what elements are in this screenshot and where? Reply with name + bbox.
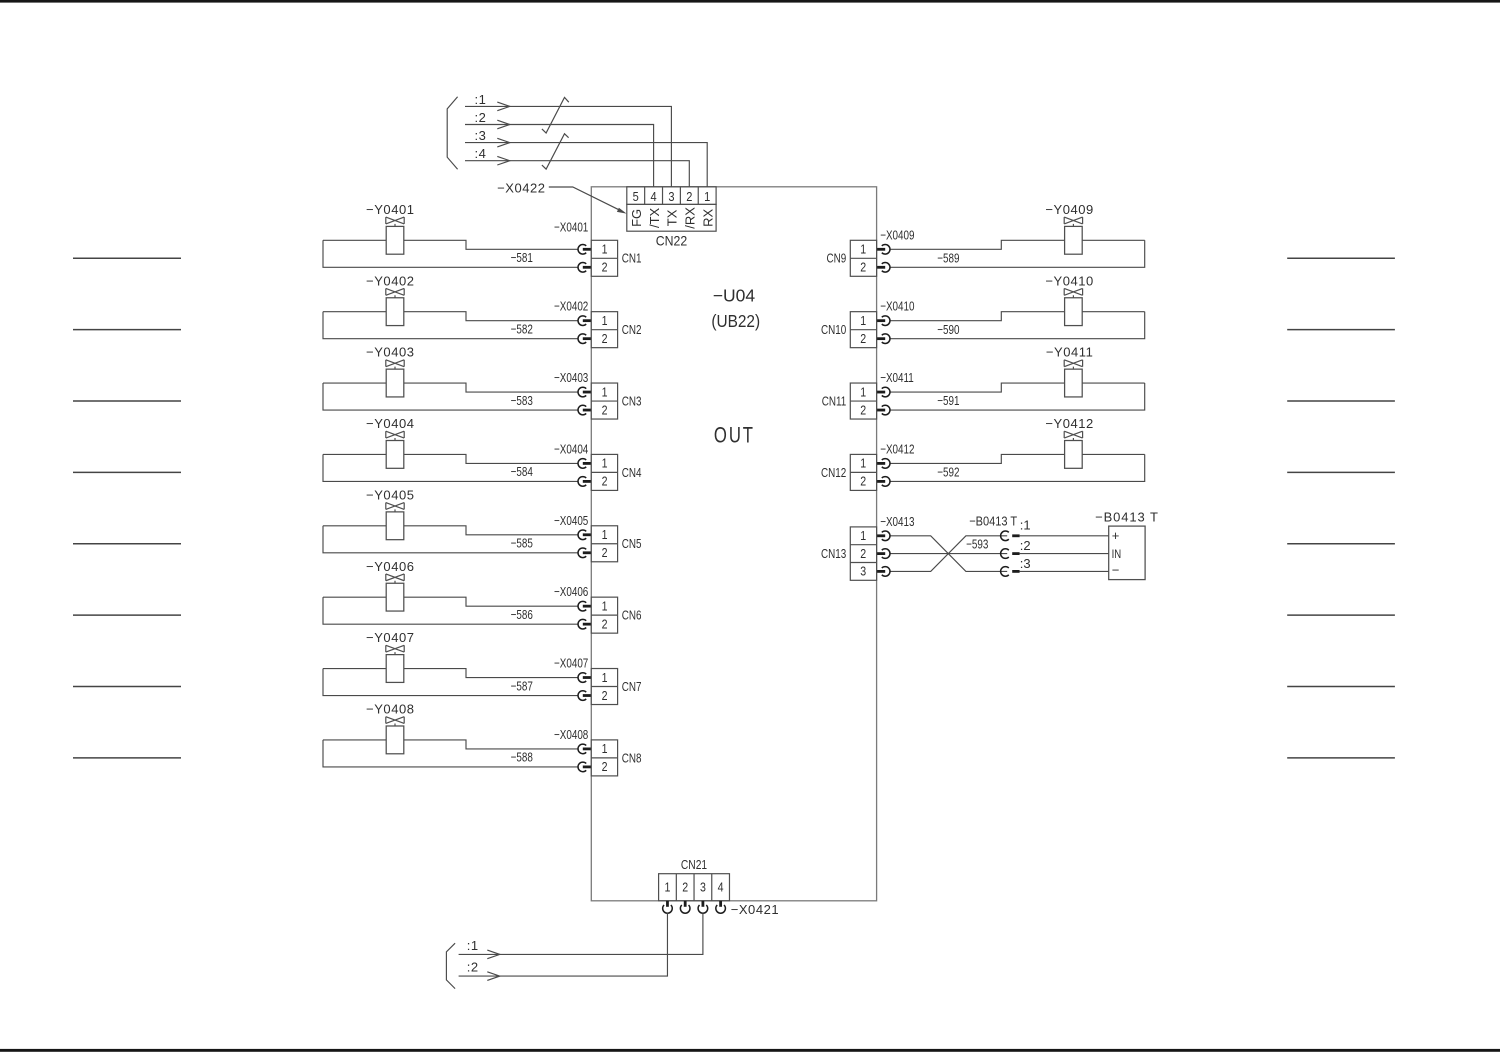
svg-text:1: 1 [704, 189, 710, 204]
svg-text:1: 1 [602, 671, 608, 685]
svg-text:−B0413 T: −B0413 T [1095, 510, 1159, 525]
wire -583 bottom segment (CN3 pin 2 return) [323, 383, 578, 410]
svg-text:−Y0407: −Y0407 [366, 630, 414, 645]
valve Y0409 [1064, 217, 1082, 254]
svg-text:−587: −587 [511, 680, 533, 694]
svg-text:CN5: CN5 [622, 538, 642, 552]
connector CN12 pin box [850, 454, 876, 490]
sensor B0413 box [1109, 526, 1145, 580]
wire CN21 pin 3 to :1 [459, 913, 703, 954]
svg-text:(UB22): (UB22) [711, 312, 760, 331]
svg-text:OUT: OUT [714, 423, 755, 448]
svg-text:CN9: CN9 [826, 253, 846, 267]
connector X0413 (socket halves) [876, 531, 890, 576]
svg-text::2: :2 [1020, 538, 1031, 553]
wire -584 bottom segment (CN4 pin 2 return) [323, 454, 578, 481]
svg-text:−X0410: −X0410 [880, 301, 914, 315]
svg-text:3: 3 [860, 565, 866, 579]
svg-text:−583: −583 [511, 395, 533, 409]
valve Y0407 [386, 645, 404, 682]
svg-text:−Y0409: −Y0409 [1045, 202, 1093, 217]
svg-text:1: 1 [860, 386, 866, 400]
leader line X0422 [549, 187, 620, 210]
svg-text:−584: −584 [511, 466, 534, 480]
svg-text:2: 2 [860, 261, 866, 275]
connector X0404 (socket halves) [578, 459, 592, 487]
svg-text:CN7: CN7 [622, 681, 642, 695]
svg-text:−Y0405: −Y0405 [366, 487, 414, 502]
svg-text:−582: −582 [511, 323, 533, 337]
svg-text:+: + [1112, 528, 1120, 543]
connector CN5 pin box [591, 526, 617, 562]
connector CN22 pin number row (5 4 3 2 1) [627, 187, 716, 205]
svg-text:−X0412: −X0412 [880, 443, 914, 457]
valve Y0412 [1064, 431, 1082, 468]
svg-text:−X0403: −X0403 [554, 372, 588, 386]
svg-text:−U04: −U04 [713, 286, 756, 306]
svg-text:−X0407: −X0407 [554, 657, 588, 671]
valve Y0401 [386, 217, 404, 254]
svg-text:FG: FG [629, 209, 644, 227]
svg-text:3: 3 [668, 189, 674, 204]
right margin line row 6 [1287, 614, 1395, 616]
connector X0408 (socket halves) [578, 744, 592, 772]
svg-text:2: 2 [860, 547, 866, 561]
svg-text:CN8: CN8 [622, 752, 642, 766]
leader arrowhead X0422 [617, 208, 627, 214]
svg-text:/TX: /TX [647, 207, 662, 228]
connector X0402 (socket halves) [578, 316, 592, 344]
wire -586 bottom segment (CN6 pin 2 return) [323, 597, 578, 624]
wire :3 from top-left [465, 143, 707, 187]
left margin line row 4 [73, 471, 181, 473]
svg-text:−585: −585 [511, 537, 533, 551]
svg-text:−591: −591 [937, 395, 959, 409]
svg-text:4: 4 [651, 189, 657, 204]
svg-text:−X0422: −X0422 [497, 180, 545, 195]
svg-text:−Y0406: −Y0406 [366, 559, 414, 574]
connector CN7 pin box [591, 669, 617, 705]
svg-text:2: 2 [860, 332, 866, 346]
connector X0411 (socket halves) [876, 387, 890, 415]
connector CN10 pin box [850, 312, 876, 348]
svg-text:1: 1 [860, 314, 866, 328]
svg-text:2: 2 [602, 618, 608, 632]
svg-text:1: 1 [602, 528, 608, 542]
left margin line row 8 [73, 757, 181, 759]
connector CN4 pin box [591, 454, 617, 490]
left margin line row 1 [73, 257, 181, 259]
wire -587 top segment (valve Y0407 to CN7 pin 1) [323, 669, 578, 678]
svg-text:2: 2 [602, 332, 608, 346]
svg-text:−581: −581 [511, 252, 533, 266]
valve Y0402 [386, 288, 404, 325]
twisted pair mark (wires :1 :2) [542, 97, 569, 133]
svg-text:−Y0410: −Y0410 [1045, 273, 1093, 288]
svg-text:−X0421: −X0421 [731, 902, 779, 917]
connector X0405 (socket halves) [578, 530, 592, 558]
svg-text:−X0411: −X0411 [880, 372, 914, 386]
connector X0406 (socket halves) [578, 601, 592, 629]
valve Y0403 [386, 360, 404, 397]
connector X0410 (socket halves) [876, 316, 890, 344]
connector X0403 (socket halves) [578, 387, 592, 415]
connector CN21 pin row (1 2 3 4) [659, 874, 730, 901]
connector B0413 plug (socket halves :1 :2 :3) [1001, 531, 1020, 576]
wire -590 bottom segment (return to CN10 pin 2) [890, 312, 1145, 339]
right margin line row 2 [1287, 329, 1395, 331]
svg-text:TX: TX [665, 209, 680, 226]
wire -585 bottom segment (CN5 pin 2 return) [323, 526, 578, 553]
svg-text:−X0409: −X0409 [880, 229, 914, 243]
wire -586 top segment (valve Y0406 to CN6 pin 1) [323, 597, 578, 606]
svg-text::1: :1 [1020, 518, 1031, 533]
wire -592 top segment (CN12 pin 1 to valve Y0412) [890, 454, 1145, 463]
right margin line row 7 [1287, 686, 1395, 688]
svg-text:2: 2 [602, 689, 608, 703]
twisted pair mark (wires :3 :4) [542, 134, 569, 169]
connector CN3 pin box [591, 383, 617, 419]
right margin line row 5 [1287, 543, 1395, 545]
svg-text:1: 1 [860, 529, 866, 543]
svg-text::1: :1 [475, 92, 487, 107]
valve Y0406 [386, 574, 404, 611]
svg-text:−Y0402: −Y0402 [366, 273, 414, 288]
wire -587 bottom segment (CN7 pin 2 return) [323, 669, 578, 696]
wire plug to sensor - [1020, 570, 1109, 572]
svg-text:CN12: CN12 [821, 467, 846, 481]
arrow on bottom wire :1 [487, 950, 500, 959]
svg-text:−586: −586 [511, 609, 533, 623]
connector CN6 pin box [591, 597, 617, 633]
wire CN21 pin 1 to :2 [459, 913, 668, 976]
svg-text:−593: −593 [966, 538, 988, 552]
valve Y0408 [386, 717, 404, 754]
svg-text::4: :4 [475, 146, 487, 161]
svg-text:2: 2 [860, 404, 866, 418]
svg-text:−589: −589 [937, 252, 959, 266]
wire -591 bottom segment (return to CN11 pin 2) [890, 383, 1145, 410]
connector X0412 (socket halves) [876, 459, 890, 487]
valve Y0405 [386, 503, 404, 540]
connector X0421 (socket halves) [663, 901, 726, 913]
left margin line row 5 [73, 543, 181, 545]
svg-text:−X0408: −X0408 [554, 729, 588, 743]
wire -584 top segment (valve Y0404 to CN4 pin 1) [323, 454, 578, 463]
wire -589 bottom segment (return to CN9 pin 2) [890, 240, 1145, 267]
svg-text:−B0413 T: −B0413 T [969, 514, 1018, 529]
svg-text:1: 1 [602, 600, 608, 614]
svg-text:−: − [1112, 563, 1120, 578]
svg-text:CN2: CN2 [622, 324, 642, 338]
svg-text:2: 2 [602, 760, 608, 774]
svg-text:−X0402: −X0402 [554, 301, 588, 315]
connector CN1 pin box [591, 240, 617, 276]
connector CN9 pin box [850, 240, 876, 276]
svg-text:CN6: CN6 [622, 609, 642, 623]
svg-text:−X0405: −X0405 [554, 515, 588, 529]
svg-text:−592: −592 [937, 466, 959, 480]
svg-text:−X0401: −X0401 [554, 221, 588, 235]
svg-text:−X0406: −X0406 [554, 586, 588, 600]
cable bracket bottom left [446, 943, 455, 988]
svg-text:CN21: CN21 [681, 859, 707, 872]
wire -593 conductor 3 (CN13 pin 3, crossing up) [890, 536, 1007, 572]
wire -581 top segment (valve Y0401 to CN1 pin 1) [323, 240, 578, 249]
arrow on wire :2 [497, 120, 510, 129]
wire -588 bottom segment (CN8 pin 2 return) [323, 740, 578, 767]
svg-text:1: 1 [860, 243, 866, 257]
svg-text::3: :3 [475, 128, 487, 143]
svg-text:1: 1 [602, 314, 608, 328]
left margin line row 2 [73, 329, 181, 331]
svg-text:−Y0403: −Y0403 [366, 345, 414, 360]
module U04 (UB22) outline [591, 187, 876, 901]
valve Y0411 [1064, 360, 1082, 397]
arrow on wire :3 [497, 138, 510, 147]
svg-text:CN13: CN13 [821, 548, 846, 562]
svg-text:2: 2 [682, 881, 688, 895]
svg-text:1: 1 [602, 457, 608, 471]
connector CN8 pin box [591, 740, 617, 776]
connector CN22 signal name row [627, 204, 716, 231]
right margin line row 8 [1287, 757, 1395, 759]
arrow on wire :1 [497, 102, 510, 111]
connector X0401 (socket halves) [578, 245, 592, 273]
arrow on bottom wire :2 [487, 972, 500, 981]
right margin line row 1 [1287, 257, 1395, 259]
svg-text:IN: IN [1112, 548, 1122, 561]
svg-text:RX: RX [700, 209, 715, 227]
wire -581 bottom segment (CN1 pin 2 return) [323, 240, 578, 267]
right margin line row 4 [1287, 471, 1395, 473]
wire -585 top segment (valve Y0405 to CN5 pin 1) [323, 526, 578, 535]
left margin line row 3 [73, 400, 181, 402]
svg-text:CN4: CN4 [622, 467, 642, 481]
arrow on wire :4 [497, 156, 510, 165]
svg-text:CN3: CN3 [622, 395, 642, 409]
svg-text:1: 1 [665, 881, 671, 895]
wire -583 top segment (valve Y0403 to CN3 pin 1) [323, 383, 578, 392]
svg-text:4: 4 [718, 881, 724, 895]
svg-text:−X0404: −X0404 [554, 443, 589, 457]
valve Y0404 [386, 431, 404, 468]
svg-text:2: 2 [686, 189, 692, 204]
right margin line row 3 [1287, 400, 1395, 402]
svg-text:2: 2 [602, 261, 608, 275]
wire -593 conductor 2 (CN13 pin 2 straight) [890, 553, 1007, 555]
svg-text:−Y0412: −Y0412 [1045, 416, 1093, 431]
wire :2 from top-left [465, 125, 654, 187]
wire -591 top segment (CN11 pin 1 to valve Y0411) [890, 383, 1145, 392]
svg-text:3: 3 [700, 881, 706, 895]
wire -590 top segment (CN10 pin 1 to valve Y0410) [890, 312, 1145, 321]
svg-text:2: 2 [602, 546, 608, 560]
wire :1 from top-left [465, 106, 671, 186]
wire plug to sensor IN [1020, 553, 1109, 555]
svg-text:5: 5 [633, 189, 639, 204]
svg-text:1: 1 [602, 742, 608, 756]
svg-text:1: 1 [602, 386, 608, 400]
connector X0407 (socket halves) [578, 673, 592, 701]
wire plug to sensor + [1020, 535, 1109, 537]
svg-text::2: :2 [467, 959, 479, 974]
svg-text:−Y0401: −Y0401 [366, 202, 414, 217]
svg-text:/RX: /RX [683, 207, 698, 229]
connector CN11 pin box [850, 383, 876, 419]
svg-text::2: :2 [475, 110, 487, 125]
cable bracket top left [447, 97, 457, 170]
svg-text:−Y0404: −Y0404 [366, 416, 414, 431]
connector CN13 pin box [850, 527, 876, 580]
svg-text::3: :3 [1020, 556, 1031, 571]
svg-text:−588: −588 [511, 752, 533, 766]
svg-text:1: 1 [602, 243, 608, 257]
valve Y0410 [1064, 288, 1082, 325]
svg-text:2: 2 [602, 404, 608, 418]
wire -592 bottom segment (return to CN12 pin 2) [890, 454, 1145, 481]
svg-text:CN22: CN22 [656, 233, 687, 249]
svg-text::1: :1 [467, 938, 479, 953]
svg-text:−590: −590 [937, 324, 959, 338]
connector X0409 (socket halves) [876, 245, 890, 273]
svg-text:−X0413: −X0413 [880, 516, 914, 530]
svg-text:−Y0411: −Y0411 [1046, 345, 1094, 360]
wire -582 top segment (valve Y0402 to CN2 pin 1) [323, 312, 578, 321]
svg-text:−Y0408: −Y0408 [366, 702, 414, 717]
left margin line row 7 [73, 686, 181, 688]
wire -582 bottom segment (CN2 pin 2 return) [323, 312, 578, 339]
bottom border bar [0, 1049, 1500, 1052]
connector CN2 pin box [591, 312, 617, 348]
svg-text:CN1: CN1 [622, 253, 642, 267]
top border bar [0, 0, 1500, 3]
left margin line row 6 [73, 614, 181, 616]
wire -593 conductor 1 (CN13 pin 1, crossing down) [890, 536, 1007, 572]
wire :4 from top-left [465, 161, 689, 187]
svg-text:1: 1 [860, 457, 866, 471]
svg-text:2: 2 [860, 475, 866, 489]
wire -589 top segment (CN9 pin 1 to valve Y0409) [890, 240, 1145, 249]
svg-text:CN11: CN11 [822, 395, 846, 409]
wire -588 top segment (valve Y0408 to CN8 pin 1) [323, 740, 578, 749]
svg-text:CN10: CN10 [821, 324, 846, 338]
svg-text:2: 2 [602, 475, 608, 489]
